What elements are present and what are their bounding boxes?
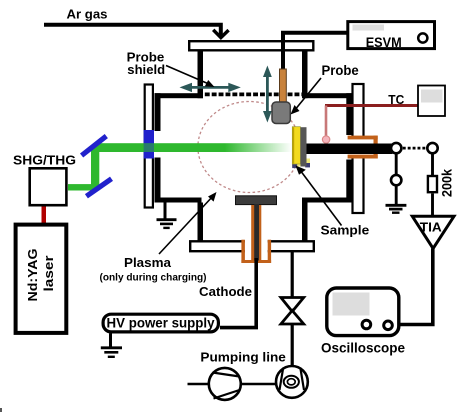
svg-text:TC: TC (388, 92, 405, 107)
svg-text:200k: 200k (439, 169, 455, 197)
svg-text:Ar gas: Ar gas (67, 7, 108, 22)
svg-text:Plasma: Plasma (124, 255, 172, 270)
svg-text:Pumping line: Pumping line (200, 350, 286, 365)
svg-text:Nd:YAG: Nd:YAG (25, 249, 40, 302)
svg-text:Oscilloscope: Oscilloscope (321, 341, 405, 356)
svg-text:TIA: TIA (420, 219, 443, 234)
svg-text:shield: shield (127, 63, 165, 77)
svg-text:Sample: Sample (321, 223, 370, 238)
svg-text:SHG/THG: SHG/THG (13, 153, 76, 168)
svg-text:laser: laser (41, 256, 56, 292)
svg-text:Probe: Probe (127, 50, 165, 64)
svg-text:HV power supply: HV power supply (107, 315, 215, 331)
svg-text:Probe: Probe (322, 63, 360, 78)
svg-text:(only during charging): (only during charging) (100, 273, 207, 284)
svg-text:Cathode: Cathode (199, 284, 252, 299)
svg-text:ESVM: ESVM (366, 35, 402, 50)
